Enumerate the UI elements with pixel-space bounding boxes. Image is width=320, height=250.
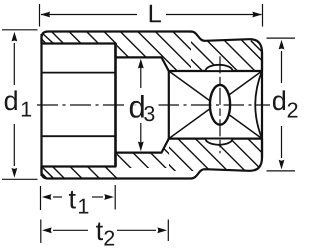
- L extension line left: [39, 4, 41, 27]
- entry chamfer arc: [255, 71, 262, 139]
- vertical centerline of cross hole: [219, 56, 221, 153]
- label d1: [5, 90, 17, 110]
- t2 extension right: [167, 220, 169, 242]
- t2 arrow left: [53, 229, 88, 231]
- hex hole end edge: [114, 44, 117, 167]
- L arrow right: [252, 12, 262, 18]
- d1 arrow down: [13, 124, 15, 166]
- pin hole bump bottom: [206, 139, 233, 145]
- d2 arrow down: [281, 126, 283, 158]
- hatching: top wall over square drive: [132, 0, 320, 250]
- square hole diagonal 1: [169, 71, 262, 139]
- d2 arrow up: [281, 51, 283, 83]
- d1 extension bottom: [2, 178, 38, 180]
- label d2: [273, 90, 285, 110]
- pin hole bump top: [206, 65, 233, 71]
- t1 extension right: [114, 185, 116, 210]
- ball hole ellipse: [210, 85, 230, 125]
- label L: [150, 5, 161, 23]
- hex corner line top: [42, 72, 116, 74]
- d1 arrow up: [13, 43, 15, 85]
- d3 arrow down: [140, 123, 142, 148]
- end face rim chamfer edge: [251, 41, 262, 52]
- L extension line right: [262, 4, 264, 27]
- d2 extension bottom: [267, 170, 296, 172]
- t1 arrow left: [53, 196, 62, 198]
- hex entry chamfer edge bottom: [42, 167, 54, 179]
- end face: [261, 52, 263, 158]
- square hole left edge: [168, 71, 170, 139]
- L dimension line right part: [166, 14, 262, 16]
- label d3: [130, 95, 144, 118]
- hex entry chamfer edge top: [42, 33, 54, 44]
- L arrow left: [41, 12, 51, 18]
- d1 extension top: [2, 29, 38, 31]
- t2 arrow right: [117, 229, 156, 231]
- L dimension line left part: [41, 14, 137, 16]
- label t2: [96, 223, 103, 241]
- t2 extension left: [40, 220, 42, 244]
- front face: [40, 34, 42, 176]
- t1 extension left: [40, 186, 42, 210]
- d2 extension top: [267, 37, 296, 39]
- label t1: [69, 191, 76, 209]
- horizontal centerline: [37, 104, 126, 106]
- t1 arrow right: [92, 196, 103, 198]
- hex corner line bottom: [42, 135, 116, 137]
- square hole diagonal 2: [169, 71, 262, 139]
- d3 arrow up: [140, 62, 142, 88]
